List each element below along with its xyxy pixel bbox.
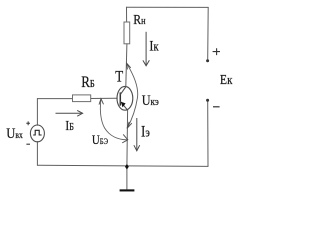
arrow IK — [143, 32, 150, 66]
arc UKE — [127, 64, 138, 128]
resistor RB — [73, 95, 91, 102]
svg-text:Eк: Eк — [220, 71, 233, 87]
svg-text:T: T — [115, 68, 123, 85]
resistor RH — [124, 22, 130, 44]
source plus — [26, 121, 30, 125]
battery minus — [213, 106, 220, 108]
wire left lower — [36, 142, 38, 166]
wire left upper — [36, 99, 38, 126]
wire base right — [91, 97, 117, 99]
pulse symbol — [33, 130, 41, 135]
arc UBE — [100, 99, 127, 140]
wire right upper — [207, 7, 210, 59]
transistor collector lead — [120, 87, 126, 95]
pulse source circle — [30, 125, 44, 142]
ground bar — [120, 189, 135, 191]
wire bottom — [37, 165, 208, 166]
svg-text:Iк: Iк — [149, 37, 159, 53]
battery terminal bottom — [206, 99, 209, 102]
arc UBE arrow top — [99, 99, 104, 105]
wire collector upper — [126, 7, 128, 22]
source minus — [26, 143, 30, 145]
wire base left — [37, 98, 72, 100]
arrow IB — [56, 110, 83, 116]
svg-text:IБ: IБ — [65, 118, 74, 133]
arc UKE arrow bottom — [127, 122, 132, 129]
battery plus — [213, 48, 220, 55]
transistor base bar — [119, 92, 121, 105]
wire right lower — [207, 101, 209, 166]
transistor emitter lead — [120, 101, 127, 110]
svg-text:Iэ: Iэ — [141, 124, 150, 141]
transistor emitter arrow — [121, 102, 126, 108]
transistor T circle — [117, 86, 133, 110]
battery terminal top — [206, 59, 209, 62]
arc UKE arrow top — [127, 63, 131, 69]
arrow IE — [134, 118, 140, 151]
arc UBE arrow right — [122, 134, 128, 143]
wire emitter — [126, 110, 129, 167]
junction node — [125, 164, 129, 170]
wire top — [126, 6, 208, 8]
wire collector lower — [126, 44, 127, 87]
wire ground stem — [126, 167, 128, 189]
